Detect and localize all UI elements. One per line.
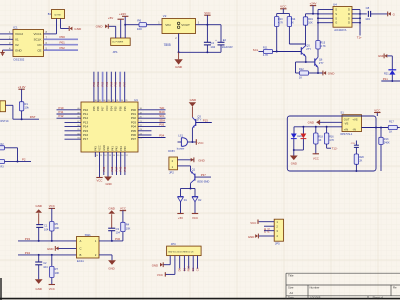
wire net P01 pin6 I/O [44, 44, 79, 46]
svg-text:T1+: T1+ [357, 35, 362, 39]
ground GND left of JP1 [107, 24, 109, 29]
svg-text:P17: P17 [83, 137, 89, 141]
wire [179, 51, 221, 53]
wire [259, 51, 264, 53]
svg-text:D: D [348, 21, 350, 25]
svg-text:T12-: T12- [332, 146, 338, 150]
wire MCU bottom pins with rotated net labels [103, 152, 105, 175]
svg-text:GND: GND [291, 162, 297, 166]
svg-text:C: C [80, 247, 82, 251]
svg-text:GND: GND [248, 235, 254, 239]
svg-text:4.7K: 4.7K [278, 21, 283, 24]
svg-text:2K: 2K [359, 159, 362, 162]
power VCC under D2 [192, 213, 198, 215]
svg-text:GND: GND [35, 204, 41, 208]
wire MCU left pin P10 net P10 [57, 109, 82, 111]
wire encoder pin2 to GND [99, 254, 112, 256]
diode D4 zener [388, 69, 396, 71]
wire MCU right pin net SCL [138, 117, 166, 119]
svg-text:10uF/16V: 10uF/16V [222, 46, 233, 49]
wire Q3 base net P15 [196, 122, 212, 124]
svg-text:R11: R11 [263, 45, 268, 49]
svg-text:X1: X1 [15, 38, 19, 42]
resistor R15 4.7K vertical [316, 41, 320, 50]
svg-text:VCC2: VCC2 [15, 32, 23, 36]
svg-text:10K: 10K [55, 226, 60, 230]
svg-text:OP07CS-1: OP07CS-1 [340, 133, 353, 136]
svg-text:R7: R7 [55, 267, 59, 271]
svg-text:V2: V2 [163, 14, 167, 18]
resistor R14 1K [288, 14, 290, 17]
rotary encoder SW1 EC11 [77, 237, 100, 259]
svg-text:32.768: 32.768 [54, 15, 61, 17]
wire [6, 104, 13, 106]
resistor R2 [0, 146, 5, 150]
power +5V under D1 [177, 213, 183, 215]
wire JP2 pin2 [178, 159, 194, 161]
svg-text:P04: P04 [109, 81, 113, 86]
svg-text:SW1: SW1 [85, 233, 92, 237]
svg-text:-IN: -IN [352, 127, 356, 131]
ground GND right of JP2 [193, 157, 195, 162]
svg-text:P00: P00 [92, 81, 96, 86]
svg-text:S: S [335, 12, 337, 16]
svg-text:GND: GND [47, 247, 53, 251]
svg-text:GND: GND [105, 182, 111, 186]
svg-text:1K: 1K [389, 130, 392, 134]
power VCC right of op-amp [376, 113, 378, 117]
svg-text:P35: P35 [102, 166, 106, 171]
svg-text:P43: P43 [119, 166, 123, 171]
svg-text:C3: C3 [116, 227, 120, 231]
svg-text:P02: P02 [60, 46, 66, 50]
svg-text:GND VCC D0 D1 RES DC CS: GND VCC D0 D1 RES DC CS [168, 251, 194, 253]
svg-text:Re: Re [393, 286, 397, 290]
capacitor C4 104 [206, 25, 208, 43]
svg-text:VCC: VCC [280, 5, 287, 9]
svg-text:R4: R4 [126, 223, 130, 227]
svg-text:+VS: +VS [352, 117, 357, 121]
connector JP2 [169, 157, 178, 170]
svg-text:R17: R17 [389, 120, 394, 124]
diode D1 [180, 189, 182, 197]
svg-text:SCLK: SCLK [34, 38, 42, 42]
resistor R18 1K [315, 127, 317, 133]
wire JP4 pin1 to GND [169, 256, 171, 265]
wire MCU right pin net P05 [138, 126, 166, 128]
svg-text:U1: U1 [134, 98, 138, 102]
wire MCU right pin net P04 [138, 137, 166, 139]
power VCC under R18 [313, 153, 319, 155]
svg-text:SCL: SCL [253, 48, 259, 52]
svg-text:GND: GND [198, 159, 204, 163]
svg-text:JP2: JP2 [169, 171, 174, 175]
wire [277, 13, 290, 15]
svg-text:R5: R5 [55, 222, 59, 226]
resistor R13 240K [380, 128, 382, 138]
ground GND under LEDs [293, 150, 295, 156]
pin 8 wire VCC1 [44, 33, 57, 35]
svg-text:P05: P05 [92, 106, 96, 111]
svg-text:VCC1: VCC1 [33, 32, 41, 36]
wire pin1 [147, 24, 163, 26]
svg-text:DC5V: DC5V [168, 150, 175, 153]
svg-text:GND: GND [190, 98, 196, 102]
op-amp S1 OP07 [342, 115, 362, 132]
LED D2 blue [293, 127, 295, 134]
crystal B1 32.768kHz [52, 10, 65, 19]
svg-text:P02: P02 [101, 81, 105, 86]
transistor Q3 [195, 119, 197, 126]
svg-text:Size: Size [288, 286, 294, 290]
resistor R11 4.7K horizontal [264, 49, 273, 53]
svg-text:EC11: EC11 [77, 259, 84, 263]
svg-text:VOUT: VOUT [181, 23, 190, 27]
wire Q3 emitter [191, 128, 193, 142]
svg-text:P55: P55 [114, 106, 118, 111]
svg-text:P01: P01 [60, 41, 66, 45]
svg-text:GND: GND [108, 266, 114, 270]
svg-text:1K: 1K [291, 21, 294, 24]
wire net P00 pin7 SCLK [44, 38, 79, 40]
wire [296, 61, 306, 63]
svg-text:R12: R12 [299, 67, 304, 71]
svg-text:P21: P21 [383, 77, 388, 81]
svg-text:A: A [80, 239, 82, 243]
svg-text:P42: P42 [115, 146, 119, 151]
svg-text:P36: P36 [110, 166, 114, 171]
svg-text:GND: GND [74, 27, 82, 31]
svg-text:Q5: Q5 [306, 44, 310, 48]
LED D3 red [302, 127, 304, 134]
wire Q1 collector [190, 183, 192, 188]
power +5V [120, 19, 122, 38]
svg-text:JP1: JP1 [113, 50, 119, 54]
resistor R6 100 [139, 23, 147, 27]
connector JP4 OLED [167, 246, 202, 256]
diode D2 [194, 189, 196, 197]
svg-text:C8: C8 [366, 6, 370, 10]
wire MCU right pins short [138, 130, 152, 132]
node junction [124, 24, 126, 26]
svg-text:+5V: +5V [108, 16, 113, 20]
svg-text:P07: P07 [101, 106, 105, 111]
wire [5, 147, 18, 149]
svg-text:7805: 7805 [164, 43, 171, 47]
wire [391, 56, 393, 70]
wire [56, 19, 58, 34]
transistor Q1 8550 [194, 174, 196, 181]
wire MCU right pin net SDA [138, 121, 166, 123]
svg-text:Q6: Q6 [319, 57, 323, 61]
svg-text:P00: P00 [60, 35, 66, 39]
svg-text:P32: P32 [115, 237, 120, 241]
wire JP4 pin2 to VCC [174, 256, 176, 275]
svg-text:P43: P43 [93, 146, 97, 151]
power +24V [124, 16, 126, 38]
wire Q1 base net P37 [195, 176, 211, 178]
svg-text:Q1: Q1 [192, 167, 196, 171]
svg-text:VCC: VCC [192, 216, 198, 220]
svg-text:DC POWER: DC POWER [112, 42, 124, 44]
wire op-amp output [362, 127, 389, 129]
connector JP5 [274, 219, 283, 241]
svg-text:VCC: VCC [105, 105, 109, 111]
svg-text:VCC: VCC [97, 179, 103, 183]
svg-text:2TY: 2TY [197, 118, 202, 122]
svg-text:JP4: JP4 [171, 242, 176, 246]
svg-text:DS1302: DS1302 [14, 57, 25, 61]
svg-text:R6: R6 [137, 18, 141, 22]
svg-text:P34: P34 [25, 251, 31, 255]
sheet border [0, 298, 400, 300]
resistor R20 2K [355, 147, 357, 154]
svg-text:GND: GND [152, 263, 158, 267]
wire U4 right pins bus [352, 9, 360, 11]
svg-text:10K: 10K [55, 271, 60, 275]
svg-text:RST1C: RST1C [1, 120, 9, 123]
wire MCU right pin net RxD [138, 113, 166, 115]
ground GND right of crystal [68, 26, 70, 31]
svg-text:C2: C2 [43, 261, 47, 265]
svg-text:240K: 240K [384, 142, 390, 145]
wire pin3 output [196, 24, 208, 26]
svg-text:P37: P37 [201, 173, 206, 177]
svg-text:GND: GND [175, 65, 183, 69]
svg-text:Date: Date [288, 295, 294, 299]
svg-text:X2: X2 [15, 43, 19, 47]
svg-text:P44: P44 [123, 166, 127, 171]
svg-text:P06: P06 [118, 81, 122, 86]
buzzer LS1 [181, 138, 187, 147]
IC U1 DS1302 [13, 30, 44, 57]
svg-text:104: 104 [365, 17, 370, 21]
switch RST1 reset button [0, 101, 6, 112]
svg-text:P15: P15 [203, 119, 208, 123]
resistor R17 1K [388, 125, 397, 129]
capacitor C2 104 [38, 255, 40, 262]
wire JP5 pin2 net P30 [264, 225, 274, 227]
svg-text:GND: GND [96, 25, 104, 29]
svg-text:2TY: 2TY [306, 47, 311, 51]
svg-text:VIN: VIN [165, 23, 170, 27]
svg-text:104: 104 [116, 231, 121, 235]
wire JP5 pin3 net P31 [264, 230, 274, 232]
svg-text:I/O: I/O [37, 43, 42, 47]
resistor R10 4.7K [276, 14, 278, 17]
mosfet U4 AO4407A [333, 7, 352, 28]
svg-text:GND: GND [35, 287, 41, 291]
wire LED rail into op-amp +IN [294, 126, 342, 128]
svg-text:VCC: VCC [313, 157, 319, 161]
wire MCU bottom pin stub [94, 152, 96, 157]
svg-text:P54: P54 [109, 106, 113, 111]
svg-text:P07: P07 [123, 81, 127, 86]
svg-text:GND: GND [102, 145, 106, 151]
resistor R16 4.7K [326, 127, 328, 133]
svg-text:D: D [348, 8, 350, 12]
capacitor C1 104 [36, 224, 43, 226]
wire MCU left pin P11 net P11 [57, 113, 82, 115]
svg-text:P01: P01 [96, 81, 100, 86]
svg-text:R16: R16 [329, 136, 334, 139]
ground GND at DS1302 pin4 [2, 50, 4, 52]
svg-text:VCC: VCC [250, 221, 256, 225]
svg-text:P37: P37 [115, 166, 119, 171]
resistor R3 [0, 159, 5, 163]
svg-text:P05: P05 [114, 81, 118, 86]
svg-text:P2: P2 [22, 157, 26, 161]
svg-text:GND: GND [328, 72, 336, 76]
svg-text:+IN: +IN [344, 127, 348, 131]
svg-text:buzzer: buzzer [177, 148, 185, 151]
ground GND right of C8 [387, 12, 389, 17]
svg-text:RST: RST [30, 115, 36, 119]
wire [115, 26, 117, 38]
svg-text:VCC: VCC [198, 141, 204, 145]
power VCC under MCU [99, 152, 101, 178]
wire Q6 emitter to GND [317, 67, 319, 73]
pin 2 wire X1 [0, 38, 13, 40]
svg-text:1K: 1K [318, 139, 321, 142]
svg-text:R1: R1 [25, 102, 29, 106]
capacitor C8 104 [360, 13, 367, 15]
svg-text:Title: Title [288, 274, 294, 278]
wire Q5 emitter [305, 57, 307, 63]
svg-text:8550-SMD: 8550-SMD [197, 181, 209, 184]
svg-text:+3.3V: +3.3V [18, 85, 26, 89]
svg-text:P30: P30 [263, 227, 267, 232]
svg-text:P44: P44 [119, 146, 123, 151]
svg-text:AO4407A: AO4407A [334, 28, 346, 32]
svg-text:VCC: VCC [204, 11, 211, 15]
wire [5, 161, 18, 163]
capacitor C15 [354, 144, 359, 146]
wire [21, 111, 23, 119]
svg-text:P06: P06 [96, 106, 100, 111]
svg-text:LS1: LS1 [178, 133, 183, 137]
wire [273, 51, 302, 53]
ground GND under MCU [107, 152, 109, 177]
wire [306, 13, 319, 15]
svg-text:104: 104 [43, 265, 48, 269]
svg-text:C1: C1 [44, 223, 48, 227]
resistor R1 10k [19, 102, 23, 111]
svg-text:P45: P45 [123, 146, 127, 151]
svg-text:-VS: -VS [344, 122, 349, 126]
node junction [276, 51, 278, 53]
svg-text:S: S [335, 8, 337, 12]
svg-text:GND: GND [378, 54, 384, 58]
capacitor C3 104 [108, 227, 115, 229]
wire MCU right pin net TxD [138, 109, 166, 111]
wire pin2 [178, 34, 180, 53]
svg-text:VCC: VCC [98, 145, 102, 151]
svg-text:U4: U4 [333, 2, 337, 6]
svg-text:GND: GND [108, 206, 114, 210]
svg-text:+5V: +5V [178, 216, 183, 220]
svg-text:10K: 10K [126, 227, 131, 231]
svg-text:1K: 1K [299, 75, 302, 79]
module outline rounded box [287, 116, 376, 171]
svg-text:IC1: IC1 [13, 26, 18, 30]
svg-text:GND: GND [15, 48, 23, 52]
svg-text:4.7K: 4.7K [263, 53, 269, 57]
wire [207, 24, 221, 26]
power VCC under R7 [49, 284, 55, 286]
wire net P33 [18, 240, 77, 242]
svg-text:10k: 10k [25, 106, 30, 110]
connector JP1 [111, 38, 131, 46]
transistor Q5 [300, 47, 302, 54]
wire U4 left pins bus [318, 9, 333, 11]
svg-text:B: B [80, 253, 82, 257]
svg-text:VCC: VCC [120, 206, 126, 210]
svg-text:E2: E2 [223, 38, 227, 42]
resistor R19 10K [305, 14, 307, 17]
svg-text:VCC: VCC [49, 287, 55, 291]
svg-text:P12: P12 [59, 114, 64, 118]
ground GND right of R12 [322, 71, 324, 76]
svg-text:RES: RES [187, 266, 191, 272]
ground GND under C2 [35, 279, 43, 284]
svg-text:D1: D1 [182, 267, 186, 271]
svg-text:Sheet of: Sheet of [373, 295, 384, 299]
wire [391, 80, 393, 82]
regulator U2 7805 [162, 19, 196, 34]
svg-text:P33: P33 [25, 237, 31, 241]
wire JP5 pin4 to GND [259, 235, 275, 237]
wire MCU top pins with rotated net labels [93, 72, 95, 102]
svg-text:GND: GND [308, 121, 314, 125]
wire MCU left pin P12 net P12 [57, 117, 82, 119]
ground GND under 7805 [178, 52, 180, 59]
wire MCU left pins P13-P17 [65, 121, 82, 123]
resistor R5 10K [50, 222, 54, 232]
svg-text:+24V: +24V [119, 12, 126, 16]
svg-text:B1: B1 [48, 12, 52, 16]
pin 3 wire X2 [0, 44, 13, 46]
svg-text:R18: R18 [318, 136, 323, 139]
svg-text:D: D [348, 12, 350, 16]
svg-text:R21: R21 [384, 73, 389, 76]
svg-text:+24V: +24V [309, 1, 316, 5]
svg-text:1/3/2005: 1/3/2005 [310, 295, 321, 299]
capacitor E2 10uF/16V [218, 41, 225, 43]
MCU U1 STC8 QFP [81, 102, 138, 152]
resistor R4 10K [121, 222, 125, 231]
svg-text:P07: P07 [131, 137, 137, 141]
svg-text:104: 104 [44, 228, 49, 232]
wire net P34 [18, 254, 77, 256]
node junction [178, 51, 180, 53]
svg-text:10K: 10K [308, 21, 313, 24]
svg-text:G: G [335, 21, 337, 25]
title block [286, 273, 400, 298]
resistor R12 1K [295, 62, 297, 73]
svg-text:S1: S1 [340, 111, 344, 115]
svg-text:2TY: 2TY [319, 61, 324, 65]
svg-text:P03: P03 [105, 81, 109, 86]
wire JP2 pin1 to Q1 emitter [178, 165, 191, 167]
ground GND under encoder [108, 260, 116, 265]
svg-text:P31: P31 [267, 227, 271, 232]
pin 1 wire VCC2 [0, 33, 13, 35]
svg-text:104: 104 [210, 45, 215, 49]
wire JP4 data pins with rotated net labels [179, 256, 181, 269]
svg-text:OUT: OUT [344, 117, 350, 121]
svg-text:D: D [348, 16, 350, 20]
